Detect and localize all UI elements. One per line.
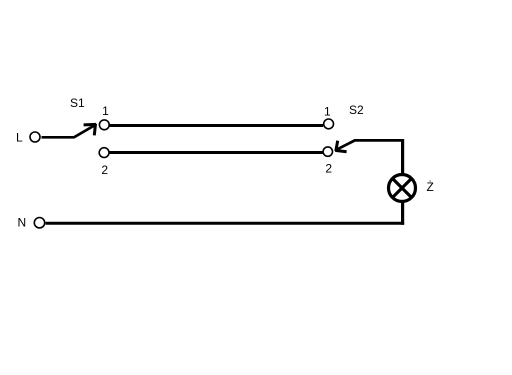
svg-text:2: 2 — [325, 162, 332, 176]
svg-text:S2: S2 — [349, 103, 364, 117]
svg-text:L: L — [16, 131, 23, 145]
svg-text:N: N — [18, 216, 27, 230]
svg-text:1: 1 — [324, 105, 331, 119]
svg-text:2: 2 — [101, 163, 108, 177]
svg-text:S1: S1 — [70, 96, 85, 110]
svg-text:1: 1 — [102, 104, 109, 118]
svg-text:Ż: Ż — [427, 180, 434, 194]
